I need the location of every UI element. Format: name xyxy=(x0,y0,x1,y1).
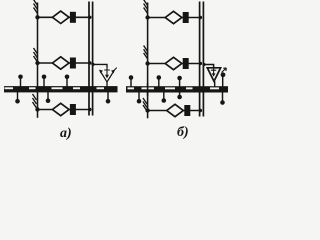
stub from apex to rail xyxy=(214,81,216,87)
spark gap (diamond) branch 3 xyxy=(52,103,69,115)
junction dot at bus xyxy=(202,63,205,66)
arrow inside triangle xyxy=(211,66,216,75)
svg-text:б): б) xyxy=(177,125,189,140)
wire from bus to arrester xyxy=(204,65,214,68)
spark gap (diamond) branch 2 xyxy=(165,57,182,69)
arrow tip (diagonal) exiting triangle xyxy=(222,68,227,73)
junction dot: down-lead corner / branch 3 xyxy=(35,107,39,111)
arrester (triangle symbol) diagram b xyxy=(202,63,226,87)
rail bond (top, with dot) x=131 xyxy=(130,78,132,87)
junction dot: bus / branch 3 xyxy=(88,108,91,111)
stub to rail xyxy=(106,82,108,87)
wire: branch 1 xyxy=(38,16,90,18)
junction dot: down-lead / branch 1 xyxy=(145,15,149,19)
junction dot: bus / branch 3 xyxy=(199,109,202,112)
junction dot: bus / branch 1 xyxy=(88,16,91,19)
fuse block (filled rect) branch 2 xyxy=(70,58,76,69)
central arrow with crossbar xyxy=(104,67,110,76)
wire: left down-lead vertical xyxy=(147,3,149,119)
wire from bus to arrester xyxy=(93,64,107,67)
ground electrode hatch (bottom) xyxy=(33,94,37,108)
svg-text:а): а) xyxy=(60,126,72,141)
rail bond (through, dots both ends) x=179.6 xyxy=(179,78,181,97)
joint gaps (white dashes) xyxy=(5,87,14,89)
right arm arrowhead xyxy=(111,70,115,74)
V electrode arms xyxy=(101,72,113,82)
rail bond (bottom, with dot) x=139 xyxy=(138,92,140,101)
junction dot: down-lead / branch 2 xyxy=(145,61,149,65)
rail bond (bottom, with dot) x=17.5 xyxy=(17,91,19,101)
ground electrode hatch (top) xyxy=(34,0,38,14)
wire: branch 1 xyxy=(148,17,200,19)
junction dot: down-lead corner / branch 3 xyxy=(145,108,149,112)
wire: branch 2 xyxy=(148,63,200,65)
right diagonal tick xyxy=(114,68,117,71)
rail bond (top, with dot) x=158.8 xyxy=(158,78,160,87)
rail bond (top, with dot) x=44 xyxy=(43,77,45,87)
junction dot: bus / branch 2 xyxy=(199,62,202,65)
junction dot: bus / branch 1 xyxy=(199,16,202,19)
ground electrode hatch (top) xyxy=(144,0,148,14)
fuse block (filled rect) branch 3 xyxy=(184,105,190,116)
fuse block (filled rect) branch 2 xyxy=(183,58,189,69)
fuse block (filled rect) branch 1 xyxy=(70,12,76,23)
rail line (thick band with insulated joints) diagram a xyxy=(4,86,118,92)
wire: down-lead crossing rail (overdraw) xyxy=(147,83,149,96)
junction dot: bus / branch 2 xyxy=(88,61,91,64)
joint gaps (white dashes) xyxy=(128,87,135,89)
junction dot at bus xyxy=(91,63,94,66)
wire: branch 2 xyxy=(38,62,90,64)
rail bond (bottom, with dot) x=108 xyxy=(107,91,109,101)
bus: double vertical line xyxy=(89,2,93,116)
rail bond (bottom, with dot) x=48 xyxy=(47,91,49,100)
wire: branch 3 (with corner from down-lead) xyxy=(148,110,200,112)
rail bond (through, dots both ends) x=222.5 xyxy=(222,75,224,102)
spark gap (diamond) branch 1 xyxy=(165,11,182,23)
spark gap (diamond) branch 2 xyxy=(52,57,69,69)
wire: branch 3 (with corner from down-lead) xyxy=(38,109,90,111)
junction dot: down-lead / branch 1 xyxy=(35,15,39,19)
arrester (small spark-gap symbol) diagram a xyxy=(91,63,116,87)
fuse block (filled rect) branch 3 xyxy=(70,104,76,115)
fuse block (filled rect) branch 1 xyxy=(183,12,189,23)
rail bond (top, with dot) x=20.5 xyxy=(20,77,22,87)
junction dot: down-lead / branch 2 xyxy=(35,61,39,65)
left arm arrowhead xyxy=(99,70,103,74)
spark gap (diamond) branch 1 xyxy=(52,11,69,23)
rail bond (bottom, with dot) x=163.8 xyxy=(163,92,165,100)
rail line (thick band with insulated joints) diagram b xyxy=(126,86,228,92)
bus: double vertical line xyxy=(200,2,204,117)
triangle electrode xyxy=(207,68,220,82)
ground electrode hatch (bottom) xyxy=(143,98,147,111)
ground electrode hatch (middle) xyxy=(144,46,148,59)
spark gap (diamond) branch 3 xyxy=(167,104,184,116)
rail bond (top, with dot) x=67 xyxy=(66,77,68,87)
ground electrode hatch (middle) xyxy=(34,48,38,62)
wire: left down-lead vertical xyxy=(37,3,39,118)
